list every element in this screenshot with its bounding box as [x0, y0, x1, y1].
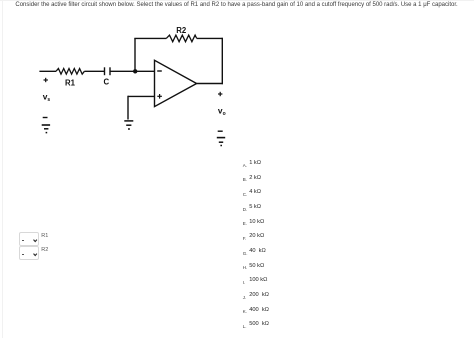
resistor R2: [166, 35, 196, 42]
wire: non-inverting input down to ground: [127, 96, 129, 120]
wire: R1 to capacitor C: [84, 70, 104, 72]
ground (output): [217, 138, 225, 146]
output plus terminal: [218, 92, 222, 96]
node junction dot: [133, 69, 137, 73]
label vs: [43, 92, 51, 104]
op-amp non-inverting input plus sign: [157, 94, 162, 99]
label C: [104, 77, 110, 86]
output minus terminal: [218, 130, 223, 132]
faint page borders: [2, 0, 3, 338]
svg-text:C: C: [104, 77, 110, 86]
resistor R1: [56, 69, 84, 75]
ground (op-amp non-inverting input): [124, 121, 133, 129]
wire: source to R1: [39, 70, 56, 72]
svg-text:vo: vo: [218, 105, 226, 117]
svg-text:vs: vs: [43, 92, 51, 104]
svg-text:R1: R1: [65, 78, 76, 87]
dropdown select R2: [19, 246, 40, 260]
dropdown select R1: [19, 232, 40, 246]
wire: non-inverting input: [128, 95, 155, 97]
svg-text:R2: R2: [176, 26, 187, 35]
wire: feedback left segment: [134, 37, 166, 39]
source minus terminal: [43, 117, 48, 119]
capacitor C: [105, 67, 111, 75]
op-amp inverting input minus sign: [157, 70, 162, 72]
wire: op-amp output: [197, 83, 223, 85]
label R2: [176, 26, 187, 35]
wire: feedback down to output: [221, 38, 223, 84]
op-amp U1: [155, 60, 197, 106]
wire: capacitor to op-amp inverting input: [110, 70, 155, 72]
label R1: [65, 78, 76, 87]
wire: junction up to feedback: [134, 38, 136, 71]
wire: feedback right segment: [197, 37, 223, 39]
label vo: [218, 105, 226, 117]
ground (source): [42, 125, 50, 133]
source plus terminal: [44, 78, 48, 82]
question text: [15, 2, 457, 8]
answer options: [243, 164, 247, 169]
